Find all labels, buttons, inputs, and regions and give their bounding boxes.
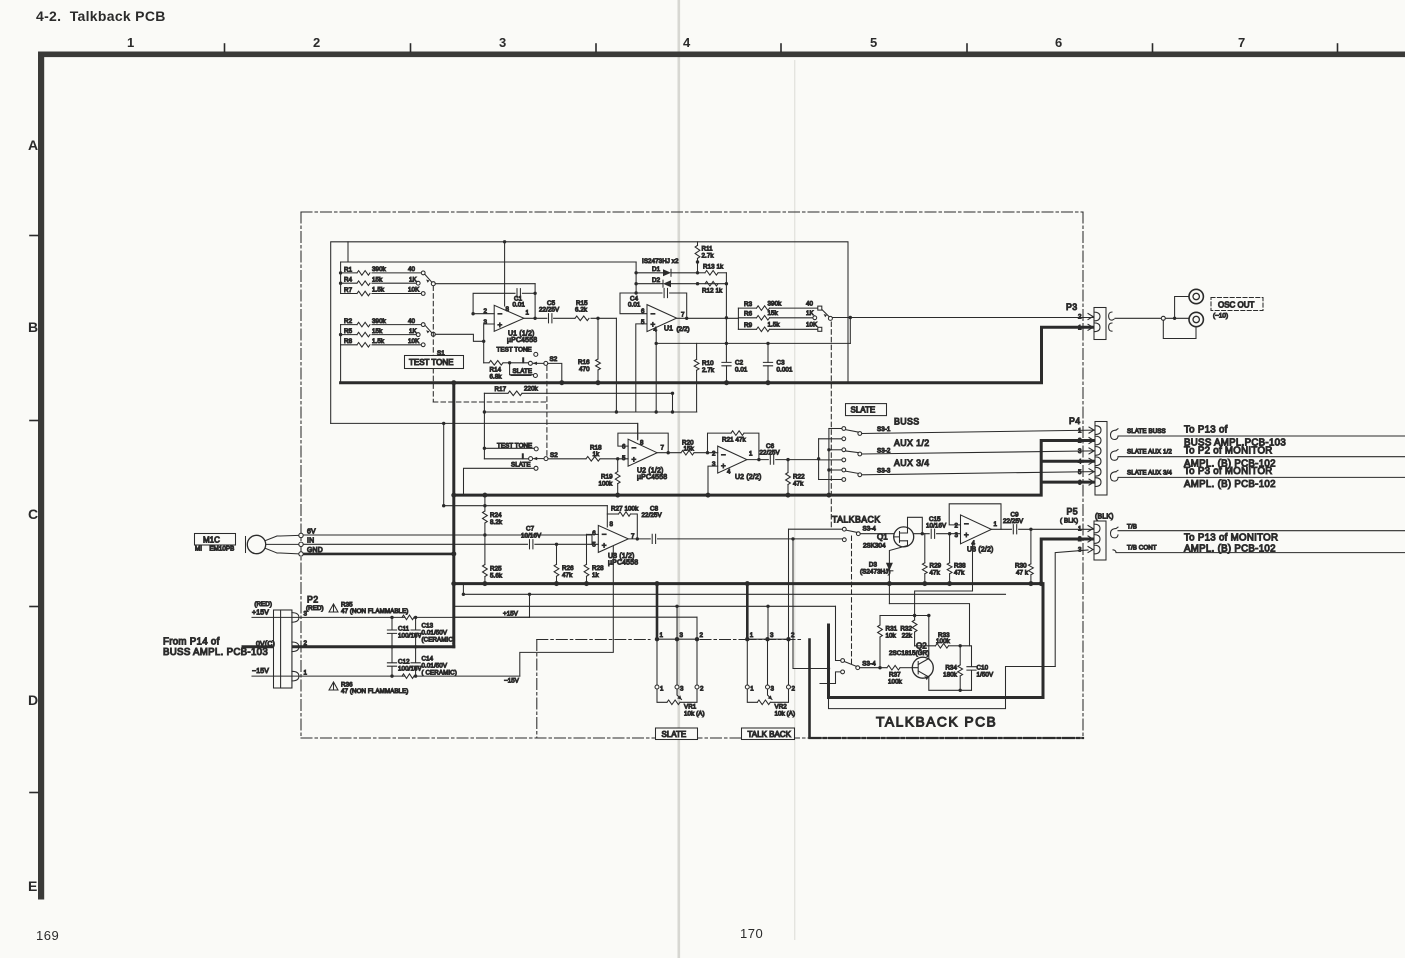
svg-text:15k: 15k xyxy=(372,276,383,283)
wire VR1 pin2 riser xyxy=(696,617,698,639)
svg-text:IN: IN xyxy=(307,538,314,545)
op-amp U1 (1/2) uPC4558 xyxy=(483,305,537,344)
TEST TONE contact xyxy=(497,347,538,357)
P4 output SLATE AUX 1/2 xyxy=(1111,445,1405,469)
resistor R2 xyxy=(341,318,426,327)
svg-text:170: 170 xyxy=(740,926,763,941)
svg-text:10/16V: 10/16V xyxy=(926,523,947,530)
svg-text:2.7k: 2.7k xyxy=(702,367,715,374)
svg-text:SLATE AUX 1/2: SLATE AUX 1/2 xyxy=(1127,449,1172,456)
svg-text:R31: R31 xyxy=(886,626,898,633)
resistor R31 xyxy=(878,616,898,670)
svg-text:R28: R28 xyxy=(592,565,604,572)
svg-text:5: 5 xyxy=(1078,469,1082,476)
wire 6V rail xyxy=(303,535,592,544)
svg-text:C3: C3 xyxy=(777,360,786,367)
frame left bar xyxy=(38,52,44,900)
svg-text:100k: 100k xyxy=(936,638,951,645)
wire Q1 source to D3 xyxy=(889,546,907,563)
svg-text:SLATE: SLATE xyxy=(513,368,533,375)
TEST TONE contact 2 xyxy=(483,442,539,451)
wire -15V input xyxy=(252,668,405,676)
wire S2a to ground xyxy=(548,363,562,382)
svg-text:(2/2): (2/2) xyxy=(677,326,690,333)
svg-text:1: 1 xyxy=(1078,325,1082,332)
svg-text:SLATE: SLATE xyxy=(851,406,876,415)
resistor R8 xyxy=(341,338,426,347)
svg-text:P5: P5 xyxy=(1067,507,1079,517)
svg-text:47k: 47k xyxy=(562,572,573,579)
connector P5 xyxy=(1060,507,1114,561)
wire -15V rail xyxy=(520,546,614,676)
switch S3-2 xyxy=(819,438,1094,462)
svg-text:R4: R4 xyxy=(344,277,353,284)
svg-text:47 (NON FLAMMABLE): 47 (NON FLAMMABLE) xyxy=(341,688,408,695)
label SLATE box xyxy=(846,404,887,416)
svg-text:15k: 15k xyxy=(768,310,779,317)
svg-text:6: 6 xyxy=(1078,479,1082,486)
svg-text:R34: R34 xyxy=(945,665,957,672)
svg-text:R29: R29 xyxy=(930,563,942,570)
wire box leg xyxy=(443,423,445,505)
switch S2a xyxy=(510,356,558,365)
svg-text:−: − xyxy=(964,519,969,528)
svg-text:5: 5 xyxy=(870,35,877,50)
svg-text:R8: R8 xyxy=(344,338,353,345)
wire BNC jumper xyxy=(1175,297,1189,319)
svg-text:5.6k: 5.6k xyxy=(490,572,503,579)
svg-text:R12 1k: R12 1k xyxy=(702,288,723,295)
svg-text:5: 5 xyxy=(641,319,645,326)
ruler tick top 2 xyxy=(410,44,412,52)
svg-text:6.8k: 6.8k xyxy=(490,374,503,381)
svg-text:TEST TONE: TEST TONE xyxy=(409,358,453,367)
svg-text:T/B: T/B xyxy=(1127,523,1137,530)
capacitor C6 xyxy=(747,443,819,464)
svg-text:180k: 180k xyxy=(943,672,958,679)
svg-text:P2: P2 xyxy=(307,595,319,605)
svg-text:R37: R37 xyxy=(889,672,901,679)
svg-text:R7: R7 xyxy=(344,287,353,294)
svg-text:4: 4 xyxy=(1078,459,1082,466)
svg-text:TALKBACK PCB: TALKBACK PCB xyxy=(876,715,997,730)
svg-text:22k: 22k xyxy=(902,633,913,640)
svg-text:2.7k: 2.7k xyxy=(702,253,715,260)
capacitor C3 xyxy=(763,343,793,382)
transistor Q1 2SK304 xyxy=(863,527,914,550)
svg-text:5: 5 xyxy=(622,455,626,462)
ruler tick left 1 xyxy=(30,235,38,237)
svg-text:169: 169 xyxy=(36,928,59,943)
wire xyxy=(340,262,342,294)
resistor R26 xyxy=(554,543,574,584)
svg-text:1: 1 xyxy=(994,521,998,528)
svg-text:47k: 47k xyxy=(793,480,804,487)
svg-text:VR2: VR2 xyxy=(775,704,788,711)
capacitor C5 xyxy=(524,300,560,323)
svg-text:7: 7 xyxy=(1238,35,1245,50)
wire mic IN xyxy=(303,543,528,545)
svg-text:R30: R30 xyxy=(1015,563,1027,570)
node contacts VR1 top xyxy=(655,637,699,641)
svg-text:4-2. Talkback PCB: 4-2. Talkback PCB xyxy=(36,8,166,24)
svg-text:R14: R14 xyxy=(490,367,502,374)
terminals VR1 xyxy=(655,685,704,693)
wire Q2 collector xyxy=(928,616,930,659)
svg-text:+: + xyxy=(632,455,637,464)
frame top bar xyxy=(38,52,1405,58)
svg-text:R32: R32 xyxy=(900,626,912,633)
wire talkback feed xyxy=(789,528,843,530)
svg-text:GND: GND xyxy=(307,547,323,554)
potentiometer VR2 xyxy=(747,689,795,718)
svg-text:P4: P4 xyxy=(1069,416,1081,426)
svg-text:R6: R6 xyxy=(744,311,753,318)
connector P4 xyxy=(1069,416,1107,495)
op-amp U2 (2/2) xyxy=(712,446,762,481)
wire VR2 legs xyxy=(747,639,788,685)
label From P14 xyxy=(163,636,268,658)
wire S3-4b feeds xyxy=(836,606,841,660)
svg-text:(−10): (−10) xyxy=(1213,313,1228,320)
svg-text:To P13 of: To P13 of xyxy=(1184,425,1228,436)
op-amp U3 (1/2) xyxy=(592,521,638,566)
svg-text:OSC OUT: OSC OUT xyxy=(1218,300,1255,309)
U2(1/2) pin8 power wire xyxy=(637,423,639,439)
mic GND heavy wire xyxy=(302,553,454,556)
capacitor C7 xyxy=(521,526,598,549)
resistor R34 xyxy=(943,646,962,691)
P2 0V(C) heavy wire xyxy=(243,645,454,648)
resistor R35 xyxy=(329,602,530,620)
op-amp U3 (2/2) xyxy=(954,515,997,554)
capacitor C9 xyxy=(991,511,1094,534)
svg-text:+: + xyxy=(964,531,969,540)
mic terminals xyxy=(299,529,323,557)
capacitor C2 xyxy=(722,360,748,383)
wire S3 signal leg xyxy=(818,439,820,480)
label MIC box xyxy=(195,534,236,553)
svg-text:MI EM10PB: MI EM10PB xyxy=(195,546,234,553)
ruler tick top 1 xyxy=(224,44,226,52)
resistor R30 xyxy=(1015,529,1033,583)
svg-text:SLATE: SLATE xyxy=(662,730,687,739)
svg-text:TALK BACK: TALK BACK xyxy=(748,730,792,739)
svg-text:2: 2 xyxy=(1078,314,1082,321)
wire attenuator feed xyxy=(677,317,739,319)
wire S3-4a common to Q1 gate xyxy=(860,533,893,535)
svg-text:1: 1 xyxy=(750,632,754,639)
U3 pin8 power wire xyxy=(444,505,608,507)
wire +15V input xyxy=(252,610,405,618)
svg-text:R38: R38 xyxy=(954,563,966,570)
resistor R7 xyxy=(341,287,426,296)
svg-text:U2 (2/2): U2 (2/2) xyxy=(735,474,762,481)
svg-text:E: E xyxy=(28,878,37,894)
svg-text:22/25V: 22/25V xyxy=(539,307,560,314)
wire VR1 pin3 riser xyxy=(676,606,678,639)
svg-text:3: 3 xyxy=(1078,448,1082,455)
wire R-network to R11 xyxy=(341,261,636,263)
svg-text:SLATE: SLATE xyxy=(511,461,531,468)
wire box bottom xyxy=(331,423,638,439)
U1 pin8 power wire xyxy=(503,240,506,243)
switch S3-3 xyxy=(819,458,1094,481)
svg-text:R2: R2 xyxy=(344,318,353,325)
svg-text:C2: C2 xyxy=(735,360,744,367)
wire vr2 wiper riser xyxy=(788,529,790,639)
ruler tick left 2 xyxy=(30,420,38,422)
ruler tick top 4 xyxy=(780,44,782,52)
wire R31/R32 top rail xyxy=(880,615,930,617)
svg-text:1k: 1k xyxy=(592,572,600,579)
P3 twisted pair loop xyxy=(1109,312,1114,331)
svg-text:BUSS: BUSS xyxy=(894,417,920,427)
svg-text:R13 1k: R13 1k xyxy=(703,263,724,270)
svg-text:0.01: 0.01 xyxy=(628,302,641,309)
capacitor C11 xyxy=(387,616,422,649)
svg-text:(RED): (RED) xyxy=(254,601,272,608)
U2(1/2) feedback loop xyxy=(618,433,668,453)
svg-text:R26: R26 xyxy=(562,565,574,572)
svg-text:15k: 15k xyxy=(684,446,695,453)
svg-text:P3: P3 xyxy=(1066,302,1078,312)
svg-text:8: 8 xyxy=(506,306,510,313)
svg-text:6.2k: 6.2k xyxy=(575,307,588,314)
TEST TONE switch box S1 xyxy=(405,356,464,369)
svg-text:10k (A): 10k (A) xyxy=(684,711,705,718)
diode D3 xyxy=(860,562,893,604)
svg-text:C13: C13 xyxy=(422,623,434,630)
svg-text:SLATE AUX 3/4: SLATE AUX 3/4 xyxy=(1127,469,1172,476)
svg-text:+15V: +15V xyxy=(503,611,519,618)
svg-text:3: 3 xyxy=(712,461,716,468)
node contacts VR2 top xyxy=(745,637,791,641)
svg-text:S2: S2 xyxy=(550,452,558,459)
switch S1b xyxy=(425,325,435,336)
oscillator block box xyxy=(331,242,848,424)
svg-text:S3-4: S3-4 xyxy=(863,526,877,533)
wire S1b common to U1 pin3 xyxy=(435,324,494,341)
svg-text:R21 47k: R21 47k xyxy=(722,436,747,443)
svg-text:3: 3 xyxy=(483,319,487,326)
wire test tone net xyxy=(484,411,696,413)
svg-text:22/25V: 22/25V xyxy=(1003,518,1024,525)
svg-text:B: B xyxy=(28,319,38,335)
PCB boundary chain line xyxy=(301,212,1083,738)
wire R17 legs xyxy=(484,393,672,459)
svg-text:−15V: −15V xyxy=(504,678,520,685)
svg-text:µPC4558: µPC4558 xyxy=(507,337,537,344)
svg-text:10/16V: 10/16V xyxy=(521,532,542,539)
svg-text:0.01: 0.01 xyxy=(513,302,526,309)
svg-text:2: 2 xyxy=(791,632,795,639)
U1(2/2) pin6 wire xyxy=(620,293,647,314)
svg-text:47k: 47k xyxy=(930,570,941,577)
svg-text:R1: R1 xyxy=(344,266,353,273)
svg-text:−: − xyxy=(602,530,607,539)
svg-text:(CERAMIC): (CERAMIC) xyxy=(422,637,456,644)
svg-text:1/50V: 1/50V xyxy=(977,672,994,679)
heavy ground vertical xyxy=(452,383,455,647)
svg-text:2SK304: 2SK304 xyxy=(863,543,886,550)
svg-text:3: 3 xyxy=(680,632,684,639)
svg-text:0.01/50V: 0.01/50V xyxy=(422,630,448,637)
svg-text:S2: S2 xyxy=(550,356,558,363)
svg-text:2: 2 xyxy=(304,640,308,647)
wire Q2 emitter xyxy=(929,677,972,690)
op-amp U1 (2/2) xyxy=(641,305,690,334)
svg-text:( CERAMIC): ( CERAMIC) xyxy=(422,670,457,677)
svg-text:1: 1 xyxy=(526,310,530,317)
ground bus 1 xyxy=(341,327,1094,382)
BNC jack 1 xyxy=(1189,289,1203,303)
svg-text:3: 3 xyxy=(499,35,506,50)
label TALK BACK box xyxy=(742,728,795,740)
resistor R32 xyxy=(900,620,917,646)
wire T/B CONT riser xyxy=(1055,550,1088,667)
svg-text:M1C: M1C xyxy=(203,535,220,544)
svg-text:C14: C14 xyxy=(422,656,434,663)
resistor R5 xyxy=(341,328,421,337)
svg-text:T/B CONT: T/B CONT xyxy=(1127,544,1157,551)
svg-text:15k: 15k xyxy=(372,328,383,335)
resistor R38 xyxy=(947,534,966,584)
svg-text:22/25V: 22/25V xyxy=(760,449,781,456)
resistor R16 xyxy=(578,317,600,383)
svg-text:BUSS AMPL. PCB-103: BUSS AMPL. PCB-103 xyxy=(163,647,268,658)
svg-text:2: 2 xyxy=(700,686,704,693)
svg-text:To P13 of MONITOR: To P13 of MONITOR xyxy=(1184,533,1278,544)
svg-text:7: 7 xyxy=(681,312,685,319)
resistor R4 xyxy=(341,276,421,285)
resistor R28 xyxy=(584,534,604,583)
capacitor C13 xyxy=(411,616,455,649)
P5 pin2 heavy ground wire xyxy=(1041,539,1094,584)
resistor R11 xyxy=(695,242,714,275)
wire R13/R12 right leg xyxy=(725,273,727,362)
svg-text:4: 4 xyxy=(683,35,691,50)
resistor R1 xyxy=(341,266,426,275)
capacitor C12 xyxy=(387,647,422,678)
resistor R36 xyxy=(329,674,520,695)
U1(2/2) pin5 wire xyxy=(636,324,647,412)
wire S2b pole to R18 xyxy=(548,458,586,460)
svg-text:D2: D2 xyxy=(652,277,661,284)
U1(2/2) pin4 wire xyxy=(655,331,657,412)
wire xyxy=(340,325,342,345)
svg-text:D3: D3 xyxy=(869,562,878,569)
svg-text:4: 4 xyxy=(727,469,731,476)
wire S1a common to C1 node xyxy=(435,283,535,285)
svg-text:10k: 10k xyxy=(886,633,897,640)
resistor R27 feedback xyxy=(607,505,639,540)
svg-text:47 (NON FLAMMABLE): 47 (NON FLAMMABLE) xyxy=(341,608,408,615)
svg-text:−: − xyxy=(498,309,503,318)
P5 output T/B CONT xyxy=(1113,544,1405,552)
svg-text:5: 5 xyxy=(592,541,596,548)
svg-text:1: 1 xyxy=(127,35,134,50)
TALK BACK pot heavy leg xyxy=(746,584,749,640)
svg-text:(S2473HJ): (S2473HJ) xyxy=(860,569,890,576)
svg-text:1: 1 xyxy=(749,451,753,458)
potentiometer VR1 xyxy=(657,689,705,718)
BNC jack 2 xyxy=(1189,312,1203,326)
resistor R19 xyxy=(599,457,621,495)
capacitor C8 xyxy=(628,505,842,543)
label OSC OUT xyxy=(1211,298,1263,320)
ruler tick left 3 xyxy=(30,606,38,608)
svg-text:R19: R19 xyxy=(601,473,613,480)
svg-text:(BLK): (BLK) xyxy=(1095,514,1114,521)
switch S3-1 xyxy=(819,417,1094,441)
svg-text:R5: R5 xyxy=(344,328,353,335)
svg-text:6: 6 xyxy=(622,444,626,451)
switch S3-4a xyxy=(842,526,876,542)
svg-text:8: 8 xyxy=(610,521,614,528)
svg-text:S3-3: S3-3 xyxy=(877,468,891,475)
resistor R3 xyxy=(738,301,821,311)
svg-text:S3-4: S3-4 xyxy=(862,661,876,668)
wire Q1 drain xyxy=(908,517,923,533)
P4 output SLATE AUX 3/4 xyxy=(1111,466,1405,490)
svg-text:2: 2 xyxy=(954,523,958,530)
wire selector common down leg xyxy=(849,318,851,344)
svg-text:8.2k: 8.2k xyxy=(490,519,503,526)
svg-text:Q1: Q1 xyxy=(877,533,888,542)
svg-text:4: 4 xyxy=(654,327,658,334)
svg-text:To P2 of MONITOR: To P2 of MONITOR xyxy=(1184,445,1273,456)
svg-text:AUX 1/2: AUX 1/2 xyxy=(894,438,930,448)
capacitor C10 xyxy=(960,646,994,691)
resistor R14 xyxy=(482,340,511,381)
wire +15V rail xyxy=(463,594,1005,617)
resistor R25 xyxy=(483,544,503,583)
P4 output SLATE BUSS xyxy=(1111,425,1405,449)
resistor R17 xyxy=(483,385,675,413)
svg-text:C12: C12 xyxy=(398,659,410,666)
svg-text:3: 3 xyxy=(770,632,774,639)
svg-text:From P14 of: From P14 of xyxy=(163,636,220,647)
svg-text:0.01/50V: 0.01/50V xyxy=(422,663,448,670)
svg-text:AUX 3/4: AUX 3/4 xyxy=(894,458,930,468)
transistor Q2 2SC1815 xyxy=(889,642,933,680)
svg-text:A: A xyxy=(28,137,38,153)
wire attenuated net xyxy=(656,342,850,344)
diode D1 xyxy=(636,266,697,276)
wire xyxy=(340,345,342,383)
switch S1c arm xyxy=(822,310,832,321)
capacitor C4 feedback xyxy=(620,288,688,320)
svg-text:2: 2 xyxy=(1078,438,1082,445)
svg-text:10K: 10K xyxy=(806,322,818,329)
microphone symbol xyxy=(246,535,300,554)
svg-text:220k: 220k xyxy=(524,385,539,392)
wire aux rail 2 xyxy=(456,605,836,607)
resistor R24 xyxy=(483,495,503,544)
svg-text:8: 8 xyxy=(640,439,644,446)
svg-text:3: 3 xyxy=(304,611,308,618)
ground bus 2 xyxy=(454,441,1094,496)
wire U1 pin2 stub xyxy=(473,313,494,315)
svg-text:0.001: 0.001 xyxy=(777,367,793,374)
resistor R22 xyxy=(786,458,806,495)
resistor R20 xyxy=(657,439,718,455)
svg-text:( BLK): ( BLK) xyxy=(1060,518,1078,525)
resistor R12 xyxy=(696,281,723,294)
ruler tick top 5 xyxy=(966,44,968,52)
diode D2 xyxy=(636,277,726,287)
